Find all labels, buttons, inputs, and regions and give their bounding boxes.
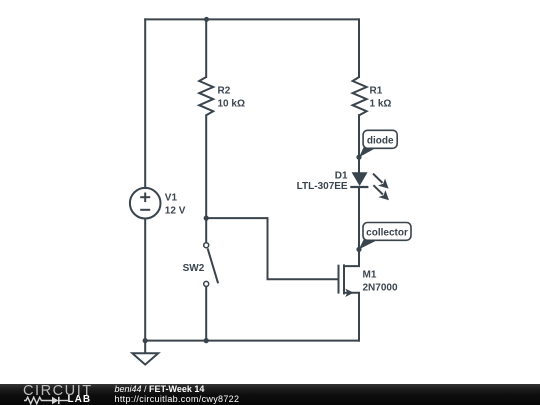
node: junction bottom middle: [204, 338, 209, 343]
svg-text:SW2: SW2: [183, 263, 205, 274]
svg-text:12 V: 12 V: [165, 206, 186, 217]
LED D1: [350, 172, 389, 200]
wire LED cathode to MOSFET drain: [358, 187, 360, 249]
resistor R2: [199, 77, 213, 115]
svg-text:collector: collector: [366, 227, 408, 238]
wire SW2 to bottom rail: [205, 287, 207, 341]
node: junction gate branch: [204, 216, 209, 221]
wire right top (rail to R1): [358, 19, 360, 77]
svg-text:10 kΩ: 10 kΩ: [218, 99, 245, 110]
ground: [132, 341, 158, 365]
wire R2 to SW2: [205, 115, 207, 242]
svg-text:R1: R1: [370, 86, 383, 97]
wire middle top (node to R2): [205, 19, 207, 77]
wire left rail upper (V+ to V1): [144, 19, 146, 188]
svg-text:2N7000: 2N7000: [363, 283, 398, 294]
svg-text:V1: V1: [165, 193, 178, 204]
wire gate branch: node to M1 gate: [206, 218, 337, 279]
node label callout: diode: [359, 130, 397, 157]
svg-text:LTL-307EE: LTL-307EE: [297, 181, 348, 192]
svg-text:R2: R2: [218, 86, 231, 97]
node: junction top rail / R2: [204, 17, 209, 22]
footer title text: [115, 385, 205, 394]
node: junction dot diode net: [356, 155, 361, 160]
svg-text:diode: diode: [367, 135, 394, 146]
node: junction ground: [143, 338, 148, 343]
wire R1 to LED anode: [358, 115, 360, 172]
svg-text:D1: D1: [335, 171, 348, 182]
wire top rail: [145, 18, 359, 20]
wire bottom rail: [145, 340, 359, 342]
voltage source V1: [130, 188, 161, 219]
footer url text: [115, 395, 240, 404]
svg-text:M1: M1: [363, 270, 377, 281]
switch SW2: [204, 243, 218, 287]
M1 source arrow: [345, 289, 353, 297]
resistor R1: [353, 77, 367, 115]
CircuitLab logo: [23, 384, 95, 405]
svg-text:1 kΩ: 1 kΩ: [370, 99, 392, 110]
transistor M1 (NMOS): [339, 249, 360, 340]
footer bar: [0, 384, 540, 405]
wire left rail lower (V1 to ground node): [144, 219, 146, 341]
node label callout: collector: [359, 223, 411, 250]
node: junction dot collector net: [356, 247, 361, 252]
